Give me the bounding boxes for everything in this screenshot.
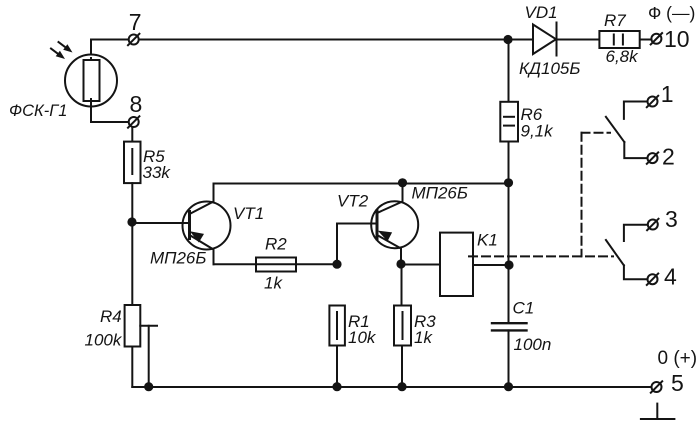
svg-text:VT1: VT1 (233, 204, 264, 223)
resistor R2 (256, 258, 296, 272)
wire R1 to bottom rail (336, 346, 338, 388)
transistor VT1 collector (190, 184, 214, 215)
wire C1 to bottom rail (508, 330, 510, 387)
diode VD1 triangle (533, 25, 556, 55)
node B junction dot (332, 260, 341, 269)
wire photocell top lead (90, 40, 92, 63)
svg-text:R2: R2 (265, 235, 287, 254)
svg-text:9,1k: 9,1k (521, 122, 555, 141)
dashed relay link to upper switch (582, 132, 611, 134)
svg-text:10k: 10k (348, 328, 377, 347)
dashed relay link horizontal from K1 (469, 255, 613, 257)
wire node A to VT1 base (132, 222, 189, 224)
svg-text:Ф (—): Ф (—) (648, 3, 695, 23)
node C junction dot (504, 260, 513, 269)
node R6 bottom dot on rail (504, 178, 513, 187)
terminal 8 (128, 116, 139, 127)
wire top rail from photocell to terminal 10 (91, 39, 651, 41)
svg-text:МП26Б: МП26Б (150, 249, 206, 268)
node VT2 collector dot on rail (398, 178, 407, 187)
resistor R7 (599, 31, 639, 48)
wire VT1 emitter to R2 (214, 263, 257, 265)
node C1 bottom rail dot (504, 382, 513, 391)
resistor R3 (394, 306, 411, 346)
wire terminal8 down to R5 (131, 126, 133, 142)
node R1 bottom dot (332, 382, 341, 391)
svg-text:5: 5 (671, 370, 684, 396)
switch contact 4 post (624, 265, 648, 279)
terminal 2 (647, 152, 658, 163)
svg-text:3: 3 (665, 206, 678, 232)
resistor R1 (329, 306, 345, 346)
switch contact 2 post (624, 142, 648, 158)
photoresistor FSK-G1 body rect (84, 60, 100, 101)
node A junction dot (127, 217, 136, 226)
transistor VT2 base bar (376, 211, 379, 239)
photoresistor FSK-G1 inner lead (90, 58, 92, 103)
svg-text:R4: R4 (100, 307, 122, 326)
photoresistor FSK-G1 circle (65, 55, 117, 107)
photoresistor light arrow 2 (51, 49, 65, 60)
terminal 3 (647, 219, 658, 230)
wire VT1 collector rail y=183 (214, 183, 509, 185)
relay K1 box (440, 233, 473, 296)
node R3 bottom dot (397, 382, 406, 391)
svg-text:100n: 100n (514, 335, 552, 354)
svg-text:100k: 100k (85, 331, 123, 350)
resistor R4 wiper arm (140, 325, 157, 327)
transistor VT1 emitter (190, 235, 214, 264)
switch contact 1 post (624, 102, 648, 119)
wire VT2 emitter to K1 (401, 264, 440, 266)
svg-text:1k: 1k (414, 328, 433, 347)
svg-text:8: 8 (130, 91, 143, 117)
resistor R4 box (125, 305, 141, 347)
svg-text:ФСК-Г1: ФСК-Г1 (9, 102, 67, 120)
terminal 10 (651, 33, 662, 44)
wire K1 right to node C (473, 264, 509, 266)
svg-text:0 (+): 0 (+) (658, 348, 698, 369)
svg-text:C1: C1 (513, 299, 535, 318)
diode VD1 cathode bar (556, 23, 558, 56)
resistor R5 (124, 142, 141, 184)
resistor R6 (500, 102, 518, 142)
transistor VT2 emitter (377, 235, 401, 264)
svg-text:МП26Б: МП26Б (412, 184, 468, 203)
svg-text:7: 7 (129, 9, 142, 35)
svg-text:VT2: VT2 (337, 192, 369, 211)
resistor R4 wiper drop wire (148, 326, 150, 387)
terminal 4 (647, 274, 658, 285)
transistor VT1 emitter arrow (190, 231, 204, 242)
wire R3 to bottom rail (401, 346, 403, 388)
wire node C down to C1 (508, 265, 510, 323)
terminal 5 (651, 381, 662, 392)
node VT2 emitter junction dot (396, 259, 405, 268)
wire node B up to VT2 base (337, 224, 377, 265)
capacitor C1 bottom plate (492, 329, 527, 331)
wire R6 to rail (508, 142, 510, 184)
svg-text:10: 10 (664, 26, 690, 52)
wire photocell bottom lead (91, 99, 129, 122)
transistor VT2 collector (377, 183, 403, 213)
wire R5 to node A (131, 183, 133, 305)
node top rail / R6 dot (503, 35, 512, 44)
svg-text:1: 1 (661, 81, 674, 107)
node R4 wiper bottom rail dot (144, 382, 153, 391)
wire R2 to node B (296, 263, 337, 265)
switch contact 3 post (624, 225, 648, 241)
dashed relay link vertical (581, 133, 583, 257)
wire VT2 emitter down to R3 (401, 264, 403, 306)
svg-text:K1: K1 (477, 231, 498, 250)
svg-text:VD1: VD1 (525, 3, 558, 22)
terminal 7 (128, 34, 139, 45)
switch 3-4 blade (606, 240, 624, 265)
transistor VT1 circle (183, 202, 231, 250)
wire bottom rail (132, 386, 651, 388)
transistor VT2 emitter arrow (378, 231, 392, 242)
photoresistor light arrow 1 (59, 42, 73, 53)
svg-text:1k: 1k (264, 274, 283, 293)
capacitor C1 top plate (492, 322, 527, 324)
terminal 1 (647, 96, 658, 107)
svg-text:33k: 33k (143, 163, 172, 182)
svg-text:2: 2 (662, 144, 675, 170)
svg-text:6,8k: 6,8k (606, 47, 640, 66)
transistor VT2 circle (371, 201, 418, 248)
svg-text:КД105Б: КД105Б (519, 59, 580, 78)
svg-text:R7: R7 (604, 11, 626, 30)
svg-text:4: 4 (664, 264, 677, 290)
wire rail down to node C (508, 183, 510, 265)
ground symbol (641, 404, 675, 419)
wire top dot down to R6 (508, 40, 510, 103)
wire R4 bottom lead (131, 347, 133, 388)
transistor VT1 base bar (188, 212, 191, 239)
switch 1-2 blade (606, 117, 624, 142)
